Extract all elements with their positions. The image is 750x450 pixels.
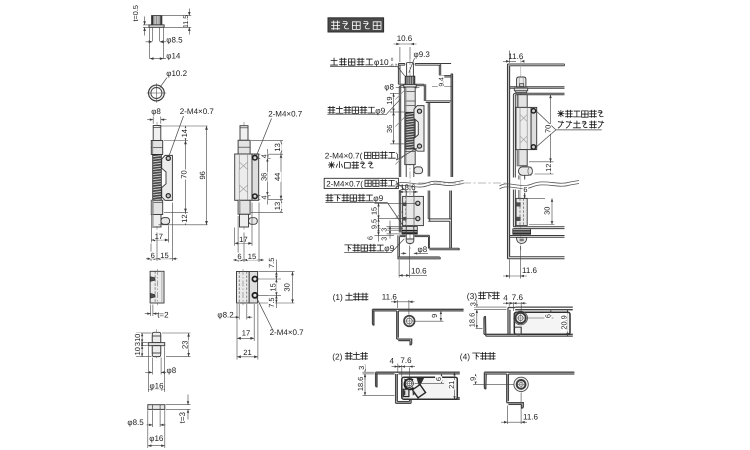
dimension 11.5 bbox=[162, 15, 191, 17]
detail-1 dim 9 bbox=[415, 320, 444, 322]
svg-text:t=3: t=3 bbox=[178, 412, 187, 424]
dimension 9.4 bbox=[432, 86, 452, 88]
dimension 18.6 assembly-left bbox=[399, 191, 418, 193]
svg-text:7.5: 7.5 bbox=[267, 297, 276, 307]
svg-text:13: 13 bbox=[273, 143, 282, 151]
assembly-right lower rod bbox=[518, 175, 520, 179]
assembly-left bracket hole top bbox=[417, 109, 421, 113]
assembly-left bottom bracket hole bottom bbox=[416, 217, 420, 221]
assembly-left break wave bbox=[396, 181, 464, 185]
svg-text:36: 36 bbox=[385, 125, 394, 133]
svg-text:3: 3 bbox=[133, 342, 142, 346]
dim 21 block bbox=[257, 304, 259, 360]
assembly-right bottom bracket front bbox=[516, 198, 527, 225]
dim 30 assembly-right bbox=[529, 224, 555, 226]
svg-text:44: 44 bbox=[273, 173, 282, 181]
dims 7.5 15 7.5 block bbox=[259, 271, 295, 273]
svg-text:15: 15 bbox=[269, 283, 278, 291]
assembly-left lower tube divider bbox=[405, 148, 415, 150]
detail-1 dim 11.6 bbox=[397, 300, 399, 308]
assembly-left cap flange bbox=[404, 85, 416, 88]
assembly-right latch tube lower bbox=[517, 150, 527, 166]
svg-text:0: 0 bbox=[391, 57, 394, 62]
dims 70 12 assembly-right bbox=[529, 161, 554, 163]
svg-text:15: 15 bbox=[160, 251, 168, 260]
dim t=3 disc bbox=[166, 404, 191, 406]
assembly-left bottom frame left leg bbox=[397, 235, 399, 259]
dimension 10.6 top bbox=[399, 47, 401, 62]
assembly-left bottom frame right edge bbox=[428, 237, 430, 249]
latch side view centerline bbox=[156, 122, 158, 231]
detail-2 fold lip bbox=[410, 395, 412, 401]
assembly-right latch tube upper bbox=[517, 95, 527, 108]
svg-text:11.5: 11.5 bbox=[183, 15, 190, 28]
svg-text:4: 4 bbox=[259, 154, 268, 158]
detail-4 frame band bbox=[484, 371, 574, 373]
detail-1 hole bbox=[404, 316, 415, 327]
svg-text:9: 9 bbox=[430, 314, 439, 318]
dimension 11.6 top bbox=[509, 51, 511, 64]
label note 扉正面側はビス止め無し bbox=[558, 110, 564, 116]
svg-text:14: 14 bbox=[180, 129, 189, 137]
assembly-right door left edge bbox=[512, 98, 514, 178]
assembly-right cap front bbox=[517, 77, 526, 87]
svg-text:3: 3 bbox=[357, 366, 366, 370]
label 扉上部穴加工φ9 bbox=[328, 106, 335, 113]
detail-3 socket bbox=[515, 313, 525, 323]
svg-text:φ16: φ16 bbox=[149, 381, 164, 390]
assembly-right cabinet left edge bbox=[508, 64, 510, 259]
block side flange bbox=[249, 272, 257, 304]
latch side screw hole top bbox=[166, 156, 170, 160]
dim 6 assembly-right bbox=[523, 186, 529, 193]
dim φ16 disc bbox=[147, 410, 149, 448]
dim 6 15 view C bbox=[150, 244, 152, 262]
svg-text:6: 6 bbox=[523, 185, 527, 194]
svg-text:70: 70 bbox=[180, 170, 189, 178]
assembly-right latch body bbox=[516, 107, 531, 149]
assembly-left pin knob bbox=[414, 167, 423, 174]
assembly-left bracket hole bottom bbox=[417, 144, 421, 148]
svg-text:4: 4 bbox=[503, 293, 508, 302]
stud lower pin bbox=[152, 346, 160, 357]
block hidden hole lines bbox=[238, 272, 240, 304]
label 下枠穴加工φ9 bbox=[345, 245, 352, 251]
svg-text:φ10: φ10 bbox=[374, 57, 389, 67]
svg-text:φ9: φ9 bbox=[373, 193, 383, 203]
label 小口側のみ bbox=[328, 162, 334, 168]
detail-3 door fold bbox=[507, 308, 509, 335]
detail-4 frame left leg bbox=[484, 372, 486, 389]
label 2-M4x0.7 sara-ana bbox=[365, 152, 371, 158]
assembly-left bolt tip bbox=[405, 226, 407, 239]
svg-text:2-M4×0.7(: 2-M4×0.7( bbox=[325, 152, 363, 161]
svg-text:6: 6 bbox=[151, 251, 155, 260]
svg-text:2-M4×0.7: 2-M4×0.7 bbox=[270, 328, 305, 337]
detail-2 dim 18.6 bbox=[363, 394, 395, 396]
svg-text:φ10.2: φ10.2 bbox=[166, 69, 187, 78]
svg-text:10: 10 bbox=[133, 347, 142, 355]
latch side pin knob bbox=[161, 218, 170, 225]
assembly-left spring bbox=[406, 112, 414, 149]
cap part top-left outline bbox=[152, 16, 162, 25]
dims 19 36 assembly-left bbox=[390, 92, 399, 94]
svg-text:11.6: 11.6 bbox=[382, 292, 398, 301]
assembly-left door bottom step bbox=[428, 218, 451, 220]
dim lines 14 70 12 view C bbox=[159, 125, 208, 127]
detail-2 dim 3 bbox=[363, 371, 375, 373]
detail-4 frame fold bbox=[506, 374, 508, 403]
cap flange bbox=[149, 25, 164, 27]
svg-text:18.6: 18.6 bbox=[468, 313, 477, 327]
dim 17 view D bbox=[234, 228, 236, 246]
block screw hole top bbox=[252, 277, 257, 282]
svg-text:φ8: φ8 bbox=[418, 245, 428, 254]
latch front pin knob bbox=[249, 218, 258, 225]
assembly-right cap flange bars bbox=[514, 88, 527, 91]
stud flange bbox=[148, 343, 164, 346]
latch side lower tube bbox=[151, 200, 162, 214]
svg-text:t=0.5: t=0.5 bbox=[131, 5, 140, 21]
assembly-left lower rod bbox=[405, 165, 407, 177]
dimension φ8.5 bbox=[146, 41, 153, 43]
label 上枠穴加工φ10 with tolerance bbox=[330, 58, 337, 65]
svg-text:φ9: φ9 bbox=[384, 243, 394, 253]
assembly-left door back face bbox=[427, 103, 429, 177]
assembly-right bottom frame band bbox=[510, 235, 565, 237]
assembly-right pin knob front bbox=[519, 167, 533, 175]
detail-2 skin left cap bbox=[376, 372, 377, 387]
dim φ8.5 disc bbox=[152, 410, 154, 427]
svg-text:11.6: 11.6 bbox=[523, 413, 539, 422]
assembly-left door top edge bbox=[400, 83, 424, 85]
dim φ8.2 block bbox=[238, 304, 240, 320]
dim φ8 bottom assembly-left bbox=[401, 252, 406, 254]
assembly-left top frame right step bbox=[438, 65, 440, 76]
assembly-left bottom frame top surface bbox=[399, 234, 405, 236]
assembly-left bracket plate bbox=[414, 106, 424, 152]
svg-text:23: 23 bbox=[181, 341, 190, 349]
svg-text:3: 3 bbox=[468, 302, 477, 306]
assembly-left bottom bracket bbox=[403, 196, 424, 225]
assembly-right bolt tip dome bbox=[516, 237, 526, 243]
cap hidden hole lines bbox=[152, 27, 154, 41]
detail-2 bracket diamond bbox=[412, 385, 425, 398]
dims 15 9.5 6 assembly-left bbox=[375, 202, 416, 204]
svg-text:(4): (4) bbox=[460, 351, 470, 361]
svg-text:(1): (1) bbox=[333, 292, 343, 302]
svg-text:4: 4 bbox=[259, 195, 268, 199]
svg-text:17: 17 bbox=[155, 232, 163, 241]
latch side spring bbox=[153, 155, 162, 201]
svg-text:3: 3 bbox=[379, 228, 388, 232]
dims 13 44 13 view D bbox=[251, 140, 283, 142]
latch front body bbox=[235, 154, 252, 200]
latch front side flange bbox=[252, 154, 259, 200]
latch front upper collar bbox=[238, 140, 250, 154]
cap outer extension lines bbox=[149, 27, 151, 58]
svg-text:φ8: φ8 bbox=[151, 107, 161, 116]
detail-4 dim 11.6 bbox=[507, 406, 509, 425]
detail-3 dim 3 bbox=[474, 306, 507, 308]
plate countersunk screw bottom bbox=[150, 293, 155, 298]
svg-text:10: 10 bbox=[133, 334, 142, 342]
detail-2 dim 21 bbox=[454, 372, 456, 399]
detail-3 fold lip hook bbox=[515, 327, 521, 334]
assembly-left bottom frame lower flange bbox=[429, 248, 460, 250]
svg-text:-0.2: -0.2 bbox=[389, 63, 397, 68]
svg-text:9.4: 9.4 bbox=[438, 77, 445, 87]
detail-4 socket bbox=[514, 377, 528, 391]
assembly-left bolt centerline bbox=[409, 58, 411, 249]
svg-text:21: 21 bbox=[447, 381, 456, 389]
assembly-left match centerline bbox=[418, 182, 506, 184]
detail-3 dim 6 bbox=[527, 317, 554, 319]
detail-2 door back line bbox=[411, 397, 460, 399]
svg-text:13: 13 bbox=[273, 202, 282, 210]
svg-text:2-M4×0.7: 2-M4×0.7 bbox=[180, 107, 215, 116]
svg-text:6: 6 bbox=[544, 314, 553, 318]
stud part centerline bbox=[156, 329, 158, 360]
svg-text:φ8: φ8 bbox=[167, 366, 177, 375]
svg-text:6: 6 bbox=[237, 252, 241, 261]
detail-1 frame fold bbox=[396, 311, 398, 339]
svg-text:φ9: φ9 bbox=[375, 105, 385, 115]
svg-text:7.6: 7.6 bbox=[400, 356, 412, 365]
detail-2 dims 4 7.6 bbox=[397, 364, 399, 372]
detail-2 door cavity liner bbox=[402, 377, 458, 399]
latch front lower rod bbox=[240, 214, 249, 227]
svg-text:6: 6 bbox=[365, 236, 374, 240]
dim 23 stud bbox=[162, 332, 191, 334]
svg-text:30: 30 bbox=[543, 207, 552, 215]
dim φ8 stud bbox=[151, 358, 153, 375]
svg-text:t=2: t=2 bbox=[157, 311, 169, 320]
dim line 96 view C bbox=[206, 126, 208, 225]
plate part t=2 bbox=[150, 271, 164, 303]
assembly-right top frame band bbox=[508, 63, 565, 65]
detail-4 dim 9 bbox=[473, 383, 514, 385]
detail-2 bracket tab bbox=[417, 378, 425, 388]
svg-text:9: 9 bbox=[468, 377, 477, 381]
svg-text:(2): (2) bbox=[332, 351, 342, 361]
stud top pin bbox=[152, 332, 160, 342]
block screw hole bottom bbox=[252, 293, 257, 298]
svg-text:2-M4×0.7(: 2-M4×0.7( bbox=[326, 179, 363, 188]
svg-text:18.6: 18.6 bbox=[356, 377, 365, 391]
assembly-right door top edge bbox=[513, 93, 564, 98]
svg-text:9.5: 9.5 bbox=[370, 219, 379, 229]
detail-2 bolt section circle bbox=[404, 379, 413, 389]
svg-text:20.9: 20.9 bbox=[560, 315, 569, 329]
assembly-right cabinet bottom edge bbox=[508, 258, 565, 260]
svg-text:18.6: 18.6 bbox=[400, 183, 416, 192]
label boxed 2-M4x0.7 sara-ana bbox=[324, 178, 398, 188]
latch side screw hole bottom bbox=[166, 194, 170, 198]
latch front lower collar bbox=[238, 200, 250, 214]
assembly-left washer stack bbox=[402, 227, 417, 235]
detail-3 dim 18.6 bbox=[474, 327, 483, 329]
dims 4 36 4 view D bbox=[259, 153, 283, 155]
dimension 11.6 bottom bbox=[509, 260, 511, 279]
assembly-left door left edge bbox=[398, 86, 400, 177]
assembly-left guide tube bbox=[405, 87, 415, 165]
latch side bracket plate bbox=[162, 155, 173, 200]
detail-1 frame band bbox=[373, 308, 464, 310]
latch side upper collar bbox=[151, 141, 162, 155]
svg-text:(3): (3) bbox=[467, 291, 477, 301]
assembly-left top frame left leg bbox=[397, 64, 399, 85]
ring part φ10.2 bbox=[149, 85, 165, 101]
assembly-right door bottom edge bbox=[513, 226, 564, 228]
svg-text:96: 96 bbox=[198, 171, 207, 179]
assembly-left bottom frame bottom strip bbox=[398, 257, 441, 259]
detail-3 dim 20.9 bbox=[567, 310, 569, 336]
svg-text:7.5: 7.5 bbox=[267, 258, 276, 268]
detail-3 door skin bbox=[484, 333, 573, 335]
latch front screw hole top bbox=[253, 155, 258, 160]
svg-text:15: 15 bbox=[248, 252, 256, 261]
dim 17 block bbox=[236, 304, 238, 360]
dim 17 view C bbox=[150, 228, 152, 243]
latch front rod top bbox=[240, 126, 248, 141]
assembly-left bottom bracket hole top bbox=[416, 201, 420, 205]
svg-text:11.6: 11.6 bbox=[522, 266, 538, 275]
assembly-right latch side flange bbox=[531, 107, 537, 149]
dims 10 3 10 stud bbox=[136, 332, 152, 334]
assembly-left door break marks bbox=[395, 91, 404, 100]
svg-text:φ8: φ8 bbox=[384, 82, 394, 91]
dim φ16 stud bbox=[147, 347, 149, 393]
svg-text:10.6: 10.6 bbox=[411, 266, 427, 275]
svg-text:φ8.2: φ8.2 bbox=[217, 311, 234, 320]
assembly-right washer stack front bbox=[513, 229, 531, 234]
svg-text:φ8.5: φ8.5 bbox=[127, 418, 144, 427]
svg-text:12: 12 bbox=[180, 214, 189, 222]
disc part t=3 bbox=[148, 405, 165, 410]
svg-text:φ9.3: φ9.3 bbox=[414, 50, 431, 59]
svg-text:17: 17 bbox=[239, 235, 247, 244]
assembly-right break wave bbox=[500, 181, 580, 187]
assembly-right bolt centerline bbox=[520, 58, 522, 250]
svg-text:30: 30 bbox=[283, 283, 292, 291]
detail-3 door cavity liner bbox=[514, 312, 570, 334]
dimension 10.6 bottom bbox=[398, 260, 400, 278]
svg-text:): ) bbox=[395, 179, 398, 188]
block part body bbox=[237, 272, 250, 304]
plate countersunk screw top bbox=[150, 277, 155, 282]
svg-text:2-M4×0.7: 2-M4×0.7 bbox=[268, 110, 303, 119]
svg-text:7.6: 7.6 bbox=[512, 293, 524, 302]
svg-text:19: 19 bbox=[385, 96, 394, 104]
assembly-left bolt rod through frame bbox=[406, 63, 408, 77]
detail-2 door fold bbox=[395, 374, 397, 402]
svg-text:3: 3 bbox=[379, 237, 388, 241]
latch side bolt rod top bbox=[153, 126, 161, 141]
latch front view centerline bbox=[243, 122, 245, 231]
svg-text:12: 12 bbox=[544, 164, 553, 172]
svg-text:φ8.5: φ8.5 bbox=[166, 35, 183, 44]
dimension φ14 bbox=[150, 58, 164, 60]
detail-3 door back line bbox=[515, 306, 573, 308]
dim 6 15 view D bbox=[237, 216, 239, 262]
title box 組み込み図 bbox=[328, 18, 384, 32]
detail-1 frame left leg bbox=[373, 309, 374, 325]
assembly-left cabinet face panel upper bbox=[451, 74, 453, 177]
svg-text:φ14: φ14 bbox=[166, 52, 181, 61]
latch front screw hole bottom bbox=[253, 194, 258, 199]
svg-text:21: 21 bbox=[243, 348, 251, 357]
assembly-left knurled cap bbox=[405, 76, 415, 84]
assembly-left cabinet face panel lower bbox=[449, 221, 451, 248]
label 扉下部穴加工φ9 bbox=[326, 194, 333, 201]
detail-3 dims 4 7.6 bbox=[508, 302, 510, 307]
assembly-right flange hole top bbox=[531, 109, 535, 113]
svg-text:36: 36 bbox=[259, 173, 268, 181]
svg-text:10.6: 10.6 bbox=[397, 34, 413, 43]
detail-2 dim 6 bbox=[415, 382, 445, 384]
svg-text:11.6: 11.6 bbox=[508, 52, 524, 61]
detail-4 fold lip bbox=[522, 403, 524, 408]
assembly-right flange hole bottom bbox=[531, 145, 535, 149]
svg-text:70: 70 bbox=[543, 125, 552, 133]
svg-text:4: 4 bbox=[390, 357, 395, 366]
svg-text:17: 17 bbox=[242, 329, 250, 338]
detail-1 fold lip bbox=[410, 339, 412, 345]
assembly-left top frame strip bbox=[398, 63, 405, 65]
svg-text:15: 15 bbox=[370, 207, 379, 215]
dims 3 3 assembly-left bbox=[387, 226, 401, 228]
latch side lower rod bbox=[152, 215, 161, 228]
dim 30 block bbox=[292, 272, 294, 303]
dimension t=2 bbox=[150, 305, 152, 317]
svg-text:6: 6 bbox=[434, 377, 443, 381]
detail-2 door skin bbox=[376, 371, 460, 373]
svg-text:φ16: φ16 bbox=[149, 434, 164, 443]
detail-3 skin left cap bbox=[484, 317, 486, 337]
detail-2 small block bbox=[403, 389, 409, 396]
